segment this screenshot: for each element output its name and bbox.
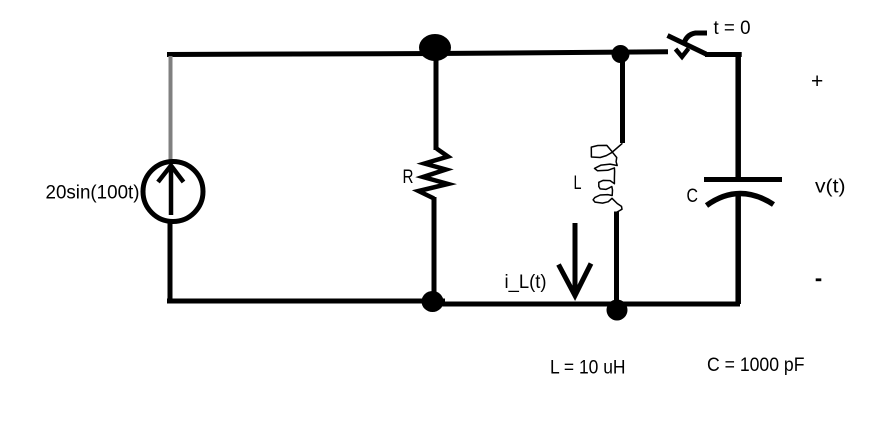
svg-text:+: + [811, 70, 823, 93]
svg-text:L: L [574, 173, 582, 194]
svg-text:R: R [403, 167, 414, 188]
svg-text:L = 10 uH: L = 10 uH [550, 358, 626, 379]
svg-text:20sin(100t): 20sin(100t) [46, 183, 140, 204]
svg-text:C: C [687, 186, 699, 207]
svg-text:i_L(t): i_L(t) [505, 272, 547, 293]
svg-text:t = 0: t = 0 [714, 18, 751, 39]
svg-text:C = 1000 pF: C = 1000 pF [707, 355, 805, 376]
svg-text:v(t): v(t) [815, 177, 846, 198]
